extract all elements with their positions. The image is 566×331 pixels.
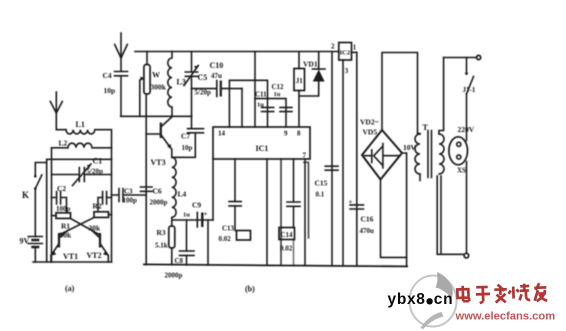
svg-text:9: 9 [284, 130, 288, 138]
svg-text:0.02: 0.02 [280, 245, 293, 253]
svg-text:C14: C14 [281, 231, 294, 239]
svg-text:+: + [349, 198, 353, 206]
svg-text:VD2~: VD2~ [360, 118, 379, 127]
svg-text:10p: 10p [104, 86, 116, 95]
svg-text:IC2: IC2 [340, 50, 350, 57]
svg-text:VD5: VD5 [363, 128, 378, 137]
svg-text:C2: C2 [57, 184, 66, 193]
svg-text:C1: C1 [93, 157, 103, 166]
svg-text:8: 8 [297, 130, 301, 138]
svg-text:(b): (b) [245, 285, 255, 294]
svg-text:C12: C12 [272, 83, 285, 91]
svg-text:IC1: IC1 [256, 144, 269, 153]
svg-text:2000p: 2000p [165, 272, 183, 280]
svg-text:R3: R3 [157, 228, 166, 237]
svg-text:K: K [22, 190, 29, 200]
svg-text:10p: 10p [182, 144, 193, 152]
svg-text:220V: 220V [458, 125, 475, 134]
svg-text:0.02: 0.02 [219, 235, 232, 243]
svg-text:C6: C6 [153, 187, 162, 196]
svg-text:5.1k: 5.1k [155, 242, 168, 250]
svg-text:VD1: VD1 [303, 60, 318, 69]
svg-text:1: 1 [353, 44, 357, 52]
svg-text:5/20p: 5/20p [87, 168, 103, 176]
svg-text:C10: C10 [210, 61, 224, 70]
svg-text:L2: L2 [59, 139, 68, 148]
svg-text:ybx8: ybx8 [388, 291, 426, 308]
svg-text:C15: C15 [315, 179, 328, 188]
svg-text:J1-1: J1-1 [463, 86, 476, 94]
svg-text:VT3: VT3 [151, 158, 166, 167]
svg-text:100p: 100p [56, 205, 71, 213]
svg-text:C9: C9 [192, 201, 201, 210]
svg-text:1u: 1u [274, 91, 281, 98]
svg-text:100p: 100p [123, 197, 138, 205]
svg-text:XS: XS [457, 167, 466, 175]
svg-text:300k: 300k [151, 83, 167, 92]
svg-text:5/20p: 5/20p [195, 89, 211, 97]
svg-text:www.elecfans.com: www.elecfans.com [455, 311, 556, 323]
svg-text:C16: C16 [361, 215, 374, 224]
svg-text:VT1: VT1 [63, 252, 78, 261]
svg-text:C8: C8 [175, 257, 184, 265]
svg-text:3: 3 [345, 67, 349, 75]
svg-text:(a): (a) [65, 284, 75, 293]
svg-text:+: + [204, 210, 208, 218]
svg-text:C11: C11 [255, 91, 267, 99]
svg-text:C7: C7 [181, 132, 190, 141]
svg-text:1u: 1u [183, 212, 190, 219]
svg-text:14: 14 [218, 130, 226, 138]
svg-text:VT2: VT2 [87, 251, 102, 260]
svg-text:0.1: 0.1 [316, 191, 325, 199]
svg-text:C5: C5 [198, 73, 208, 82]
svg-text:L1: L1 [76, 120, 85, 129]
svg-text:cn: cn [434, 291, 454, 308]
svg-text:C13: C13 [222, 225, 235, 233]
svg-text:2000p: 2000p [150, 199, 168, 207]
svg-text:470u: 470u [360, 227, 375, 235]
svg-text:C3: C3 [124, 188, 133, 196]
svg-text:W: W [152, 71, 160, 80]
svg-text:2: 2 [331, 43, 335, 51]
svg-text:J1: J1 [296, 77, 304, 85]
svg-text:C4: C4 [103, 71, 112, 80]
svg-text:L4: L4 [178, 190, 187, 199]
svg-text:9V: 9V [20, 237, 30, 246]
svg-text:47u: 47u [211, 72, 222, 80]
svg-text:1u: 1u [257, 102, 264, 109]
